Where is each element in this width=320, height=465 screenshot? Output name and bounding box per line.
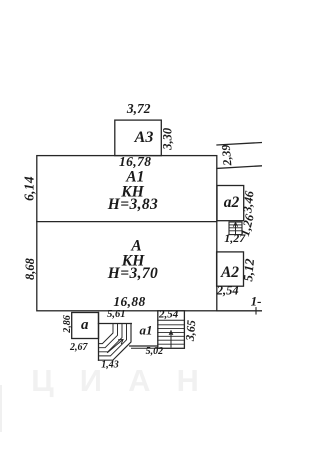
annex room a box [72,313,99,339]
wall: main building outline [37,156,217,311]
svg-text:16,88: 16,88 [113,294,145,309]
svg-text:2,86: 2,86 [62,315,73,334]
svg-text:3,65: 3,65 [183,319,199,342]
room a1 bottom line [130,345,158,347]
svg-text:5,02: 5,02 [146,346,164,357]
svg-text:5,12: 5,12 [240,258,257,282]
svg-text:Н=3,70: Н=3,70 [107,265,158,282]
svg-text:a2: a2 [224,194,240,211]
svg-text:1,27: 1,27 [224,231,246,245]
winder stair: tread 3 [99,324,123,352]
stair under a2: arrow [235,223,237,235]
room A2 box [217,252,244,286]
room A3 box [115,120,162,156]
right stair treads [158,324,185,326]
annex strip 2,39 top line [217,143,262,146]
room a2 box [217,186,244,221]
right stair top line under 2,54 [158,319,185,321]
svg-text:2,54: 2,54 [216,283,239,297]
scan edge artifact [0,385,2,432]
right stair box [158,311,185,349]
svg-text:A3: A3 [134,129,154,146]
svg-text:Н=3,83: Н=3,83 [107,196,158,213]
wall: bottom line extension to right edge [217,310,262,312]
winder stair: tread 2 [99,324,118,348]
stair under a2: treads [229,224,242,226]
svg-text:a: a [81,317,89,333]
svg-text:2,67: 2,67 [69,342,89,353]
svg-text:3,30: 3,30 [161,127,175,151]
svg-text:A2: A2 [220,264,239,281]
svg-text:3,72: 3,72 [126,101,151,116]
winder stair: tread 4 [99,324,127,356]
wall: floor divider between A1 and A [37,221,217,223]
tick on bottom extension [255,308,257,314]
svg-text:1-: 1- [251,293,262,308]
svg-text:a1: a1 [140,323,153,338]
svg-text:2,54: 2,54 [158,308,179,320]
winder stair: arrow [108,340,124,353]
svg-text:6,14: 6,14 [22,176,37,201]
stair under a2: box [229,222,242,235]
svg-text:2,39: 2,39 [219,144,235,167]
winder stair: outer boundary [99,324,132,361]
right stair arrow [170,331,172,347]
annex strip 2,39 bottom line [217,166,262,169]
room a1 lower double line [132,347,158,349]
winder stair: tread 1 [99,324,114,344]
winder stair: left wall [98,313,100,361]
svg-text:8,68: 8,68 [23,257,37,280]
svg-text:ЦИАН: ЦИАН [31,363,225,398]
svg-text:16,78: 16,78 [119,154,151,169]
winder stair: top line [99,323,132,325]
svg-text:5,61: 5,61 [107,309,125,320]
svg-text:3,46: 3,46 [240,189,256,214]
